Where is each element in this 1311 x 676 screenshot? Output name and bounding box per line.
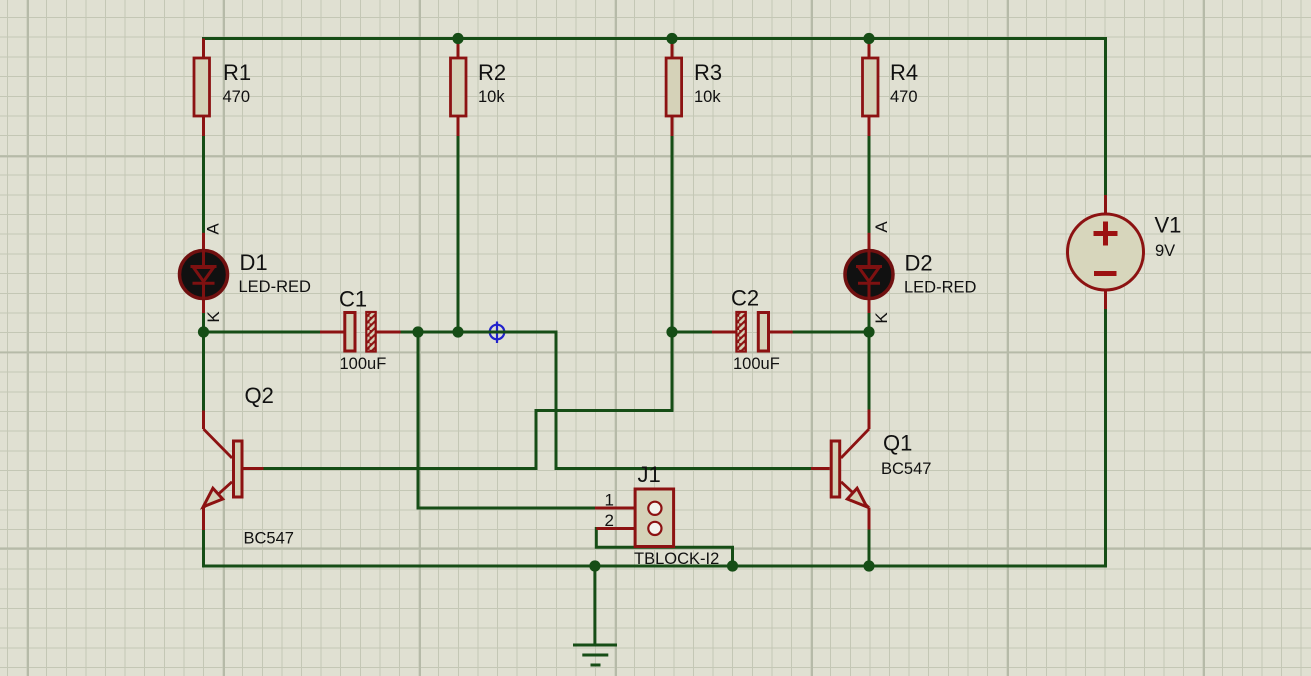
svg-text:LED-RED: LED-RED [904,279,977,297]
svg-text:470: 470 [223,88,251,106]
svg-text:J1: J1 [638,462,661,487]
svg-text:470: 470 [890,88,918,106]
svg-text:BC547: BC547 [881,460,931,478]
svg-text:2: 2 [605,511,614,530]
svg-text:C1: C1 [339,287,367,312]
svg-text:BC547: BC547 [244,530,294,548]
svg-text:R2: R2 [478,60,506,85]
svg-text:LED-RED: LED-RED [239,278,312,296]
svg-text:C2: C2 [731,286,759,311]
svg-text:R3: R3 [694,60,722,85]
svg-text:R1: R1 [223,60,251,85]
svg-text:D2: D2 [905,251,933,276]
svg-text:R4: R4 [890,60,918,85]
svg-text:Q2: Q2 [245,383,274,408]
svg-text:100uF: 100uF [733,355,780,373]
svg-text:TBLOCK-I2: TBLOCK-I2 [634,550,719,568]
svg-text:1: 1 [605,491,614,510]
svg-text:K: K [204,311,223,323]
svg-text:A: A [872,221,891,233]
svg-text:V1: V1 [1155,213,1182,238]
svg-text:10k: 10k [478,88,505,106]
svg-text:K: K [872,312,891,324]
svg-text:A: A [204,223,223,235]
svg-text:D1: D1 [240,250,268,275]
svg-text:Q1: Q1 [883,431,912,456]
svg-text:9V: 9V [1155,242,1175,260]
svg-text:10k: 10k [694,88,721,106]
svg-text:100uF: 100uF [340,355,387,373]
